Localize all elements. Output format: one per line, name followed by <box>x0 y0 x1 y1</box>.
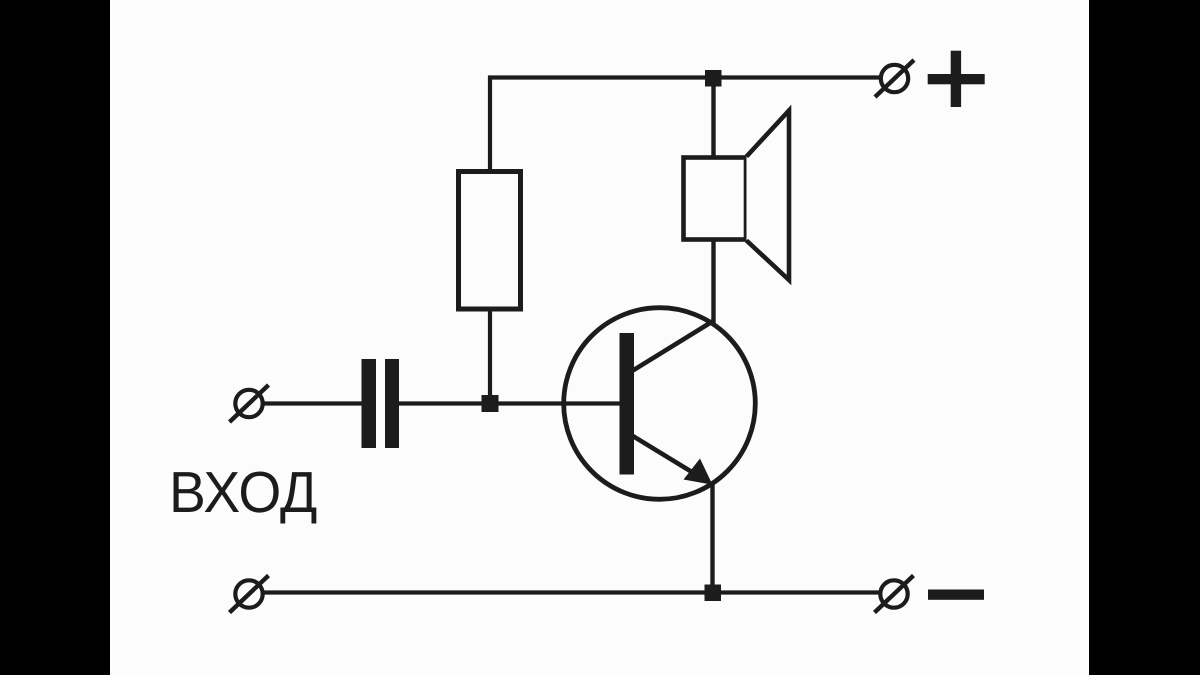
transistor base bar <box>620 333 635 475</box>
junction bottom <box>705 585 722 602</box>
transistor collector line <box>632 321 714 372</box>
wire bottom rail <box>264 590 879 594</box>
resistor R1 <box>459 172 521 310</box>
loudspeaker horn <box>747 111 790 281</box>
junction top <box>705 70 722 87</box>
loudspeaker body <box>684 158 747 240</box>
wire top rail with corner down to resistor <box>490 78 880 170</box>
wire resistor bottom to base node <box>488 311 492 404</box>
capacitor C1 plate 1 <box>362 359 377 448</box>
transistor VT1 body circle <box>564 308 756 500</box>
wire emitter down to bottom rail <box>710 483 714 593</box>
wire capacitor to base <box>398 401 620 405</box>
plus sign <box>928 51 985 107</box>
terminal plus (top right) <box>875 60 914 97</box>
wire speaker top drop <box>711 78 715 157</box>
wire input to capacitor <box>264 401 364 405</box>
minus sign <box>928 590 984 600</box>
junction base node <box>482 395 499 412</box>
transistor emitter line <box>632 436 705 481</box>
terminal input (circle with slash) <box>230 385 269 422</box>
wire speaker bottom to collector <box>711 241 715 323</box>
svg-text:ВХОД: ВХОД <box>169 460 317 525</box>
terminal bottom-left <box>230 576 269 613</box>
transistor emitter arrowhead <box>684 459 713 485</box>
terminal minus (bottom right) <box>875 576 914 613</box>
capacitor C1 plate 2 <box>385 359 399 448</box>
